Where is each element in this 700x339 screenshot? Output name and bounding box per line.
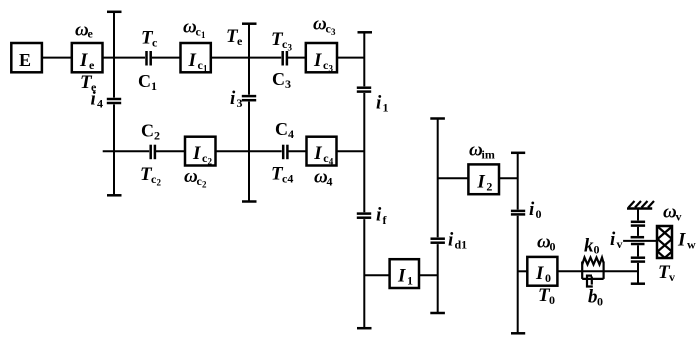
svg-text:I: I (313, 50, 322, 71)
svg-text:e: e (89, 58, 95, 72)
shaft2 bottom cap (242, 200, 257, 203)
box I2 (468, 164, 499, 194)
wire shaft5 to I0 (518, 270, 528, 272)
wire row3 I1 to shaft4 (419, 274, 438, 276)
wire row1 E to Ie (42, 57, 72, 59)
box I1 (390, 259, 419, 288)
wire row2 Ic4 to shaft3 (337, 150, 365, 152)
svg-text:i: i (529, 199, 535, 220)
gear pair if (357, 212, 371, 215)
svg-text:e: e (88, 27, 94, 41)
svg-text:3: 3 (285, 77, 291, 91)
svg-text:I: I (192, 143, 201, 164)
svg-text:C: C (272, 69, 285, 89)
capacitor C4 (282, 145, 285, 160)
box Ic3 (306, 43, 337, 72)
wire row1 Ic3 to shaft3 (337, 57, 364, 59)
svg-text:2: 2 (202, 180, 207, 190)
wire row1 Ic1 to C3 (211, 57, 281, 59)
svg-text:1: 1 (407, 273, 413, 287)
shaft 1 (113, 12, 115, 98)
gear pair iv lower (631, 256, 645, 259)
svg-text:0: 0 (536, 207, 542, 221)
shaft5 top cap (511, 152, 525, 155)
wire shaft4 to I2 (438, 177, 469, 179)
svg-text:i: i (610, 229, 616, 250)
shaft1 top cap (107, 11, 122, 14)
svg-text:I: I (79, 50, 88, 71)
svg-text:3: 3 (331, 27, 336, 37)
svg-text:1: 1 (201, 30, 206, 40)
svg-text:2: 2 (157, 178, 162, 188)
svg-text:I: I (397, 265, 406, 286)
svg-text:i: i (448, 230, 454, 251)
wire row1 C3 to Ic3 (288, 57, 306, 59)
gear pair i0 (511, 210, 525, 213)
damper piston (591, 277, 593, 285)
damper cup b0 (587, 276, 593, 287)
shaft5 bottom cap (511, 332, 525, 335)
shaft3 bottom cap (357, 327, 372, 330)
svg-text:i: i (376, 93, 382, 114)
svg-text:E: E (19, 50, 31, 70)
wire row1 Ie to C1 (103, 57, 146, 59)
wire row3 shaft3 to I1 (364, 274, 389, 276)
shaft3 top cap (358, 31, 373, 34)
box Ie (72, 43, 103, 72)
ground line (627, 207, 652, 210)
Iw crosshatch (658, 227, 673, 259)
svg-text:0: 0 (549, 293, 555, 307)
shaft 3 (363, 32, 365, 86)
box Iw crosshatched (657, 226, 672, 258)
shaft1 bottom cap (107, 194, 122, 197)
capacitor C3 (281, 51, 284, 66)
svg-text:4: 4 (329, 157, 334, 167)
shaft 5 (517, 153, 519, 210)
shaft 2 (248, 24, 250, 95)
svg-text:im: im (482, 148, 495, 162)
gear mesh iv bars (631, 236, 645, 239)
svg-text:v: v (676, 210, 682, 224)
gear pair i4 (107, 98, 121, 101)
svg-text:i: i (230, 88, 236, 109)
box I0 (527, 257, 557, 286)
gear pair i1 (357, 86, 371, 89)
wire row2 C2 to Ic2 (156, 150, 185, 152)
svg-text:0: 0 (597, 295, 603, 309)
svg-text:w: w (687, 238, 696, 252)
svg-text:1: 1 (383, 101, 389, 115)
box Ic1 (181, 43, 211, 72)
svg-text:3: 3 (288, 43, 293, 53)
wire row1 C1 to Ic1 (152, 57, 181, 59)
svg-text:2: 2 (154, 129, 160, 143)
svg-text:4: 4 (327, 175, 333, 189)
spring-damper bottom rail (582, 278, 603, 280)
svg-text:C: C (141, 121, 154, 141)
svg-text:4: 4 (288, 127, 294, 141)
wire I0 to shaft6 through spring-damper (557, 270, 638, 272)
svg-text:v: v (617, 237, 623, 251)
shaft 4 (437, 119, 439, 238)
spring-damper right leg (602, 262, 604, 279)
svg-text:v: v (669, 270, 675, 284)
box Ic4 (307, 137, 337, 166)
svg-text:I: I (188, 50, 197, 71)
svg-text:i: i (376, 205, 382, 226)
shaft4 top cap (430, 117, 445, 120)
svg-text:I: I (476, 171, 485, 192)
svg-text:c4: c4 (282, 172, 293, 186)
svg-text:e: e (237, 34, 243, 48)
gear pair i3 (242, 95, 256, 98)
svg-text:I: I (677, 230, 686, 251)
wire iv mesh to Iw (623, 240, 657, 242)
wire row2 Ic2 to C4 (216, 150, 282, 152)
svg-text:1: 1 (151, 79, 157, 93)
svg-text:I: I (313, 143, 322, 164)
spring k0 (582, 258, 603, 287)
capacitor C1 (145, 51, 148, 66)
svg-text:0: 0 (550, 240, 556, 254)
svg-text:2: 2 (208, 157, 213, 167)
spring-damper left leg (581, 262, 583, 279)
shaft4 bottom cap (430, 312, 445, 315)
shaft 6 (637, 209, 639, 221)
box Ic2 (185, 137, 216, 166)
svg-text:2: 2 (486, 179, 492, 193)
wire I2 to shaft5 (499, 177, 518, 179)
gear pair id1 (431, 237, 445, 240)
box E (11, 43, 42, 72)
wire row2 C4 to Ic4 (289, 150, 307, 152)
svg-text:0: 0 (594, 243, 600, 257)
shaft2 top cap (242, 22, 257, 25)
shaft6 bottom cap (631, 282, 645, 285)
svg-text:I: I (535, 263, 544, 284)
wire row2 stub to C2 (103, 150, 150, 152)
capacitor C2 (149, 145, 152, 160)
svg-text:C: C (138, 71, 151, 91)
svg-text:k: k (584, 236, 594, 257)
svg-text:3: 3 (237, 96, 243, 110)
svg-text:C: C (275, 119, 288, 139)
svg-text:3: 3 (329, 63, 334, 73)
svg-text:1: 1 (203, 63, 208, 73)
gear pair iv upper (631, 221, 645, 224)
svg-text:4: 4 (97, 97, 103, 111)
svg-text:c: c (152, 36, 158, 50)
svg-text:d1: d1 (455, 238, 468, 252)
svg-text:0: 0 (545, 271, 551, 285)
svg-text:i: i (91, 89, 97, 110)
ground hatching (629, 201, 655, 208)
